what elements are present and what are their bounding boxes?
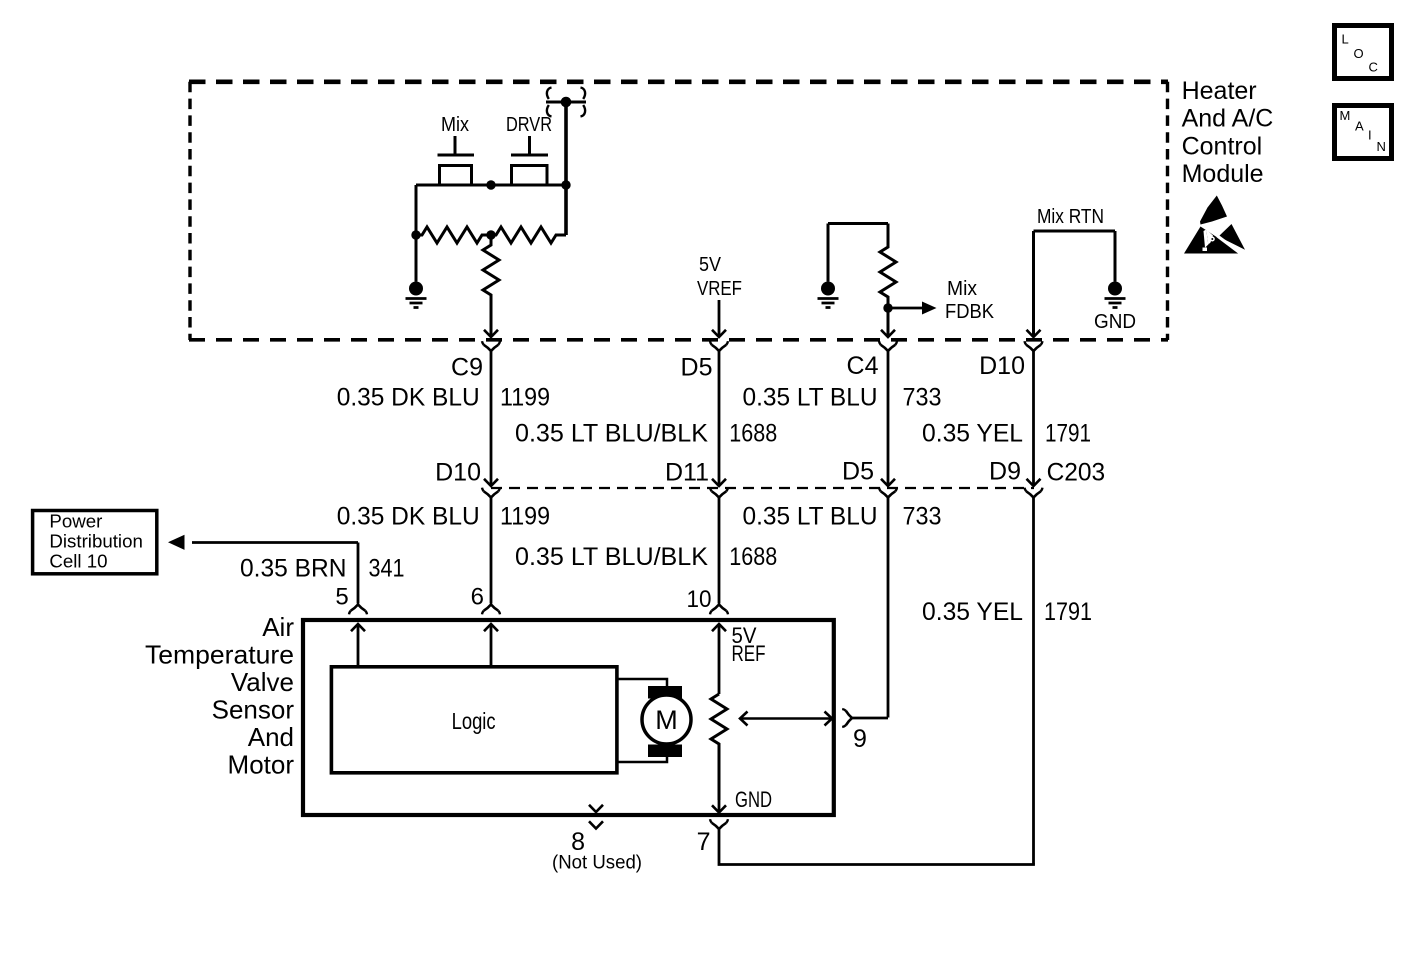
- svg-text:Mix RTN: Mix RTN: [1037, 205, 1104, 228]
- svg-text:733: 733: [903, 384, 942, 412]
- svg-text:FDBK: FDBK: [945, 300, 994, 323]
- svg-text:M: M: [1340, 108, 1351, 123]
- svg-text:Valve: Valve: [231, 667, 294, 697]
- svg-text:Temperature: Temperature: [145, 640, 294, 670]
- svg-text:D9: D9: [989, 458, 1021, 486]
- svg-text:L: L: [1342, 32, 1349, 47]
- svg-text:I: I: [1368, 128, 1372, 143]
- svg-text:0.35 BRN: 0.35 BRN: [240, 555, 347, 583]
- svg-text:7: 7: [697, 828, 711, 856]
- svg-text:Logic: Logic: [452, 708, 496, 734]
- svg-text:C4: C4: [847, 352, 879, 380]
- svg-text:5: 5: [335, 584, 348, 611]
- svg-text:D5: D5: [842, 458, 874, 486]
- svg-text:5V: 5V: [699, 253, 721, 276]
- svg-text:Air: Air: [262, 612, 294, 642]
- svg-text:C: C: [1369, 60, 1378, 75]
- svg-text:Distribution: Distribution: [49, 531, 142, 552]
- svg-text:0.35 YEL: 0.35 YEL: [922, 420, 1023, 448]
- svg-text:0.35 YEL: 0.35 YEL: [922, 598, 1023, 626]
- svg-text:1688: 1688: [729, 543, 777, 571]
- svg-text:N: N: [1377, 139, 1386, 154]
- svg-text:Cell 10: Cell 10: [49, 550, 107, 571]
- svg-text:6: 6: [471, 584, 484, 611]
- svg-text:1791: 1791: [1045, 420, 1091, 448]
- svg-text:1199: 1199: [500, 502, 550, 530]
- svg-text:D10: D10: [435, 459, 481, 487]
- svg-text:D5: D5: [681, 354, 713, 382]
- svg-text:733: 733: [903, 502, 942, 530]
- svg-text:D11: D11: [665, 459, 709, 487]
- svg-text:0.35 LT BLU: 0.35 LT BLU: [743, 502, 878, 530]
- svg-text:(Not Used): (Not Used): [552, 853, 642, 874]
- svg-text:Sensor: Sensor: [212, 695, 295, 725]
- svg-text:0.35 DK BLU: 0.35 DK BLU: [337, 384, 480, 412]
- svg-text:341: 341: [369, 555, 405, 583]
- svg-text:A: A: [1355, 119, 1364, 134]
- svg-text:And: And: [248, 722, 294, 752]
- svg-text:Heater: Heater: [1182, 77, 1257, 105]
- svg-text:C9: C9: [451, 354, 483, 382]
- svg-text:Power: Power: [49, 511, 102, 532]
- svg-text:Mix: Mix: [947, 277, 978, 300]
- svg-text:C203: C203: [1047, 459, 1106, 487]
- svg-text:Module: Module: [1182, 160, 1264, 188]
- svg-text:GND: GND: [1094, 310, 1136, 333]
- svg-text:DRVR: DRVR: [506, 113, 552, 136]
- svg-text:1199: 1199: [500, 384, 550, 412]
- svg-text:1688: 1688: [729, 420, 777, 448]
- svg-text:9: 9: [853, 725, 867, 753]
- svg-text:Motor: Motor: [228, 750, 295, 780]
- svg-text:And A/C: And A/C: [1182, 104, 1274, 132]
- svg-text:0.35 LT BLU: 0.35 LT BLU: [743, 384, 878, 412]
- svg-text:10: 10: [687, 586, 712, 613]
- svg-text:Mix: Mix: [441, 113, 470, 136]
- svg-text:VREF: VREF: [697, 277, 742, 300]
- svg-text:GND: GND: [735, 787, 772, 812]
- svg-text:0.35 LT BLU/BLK: 0.35 LT BLU/BLK: [515, 543, 708, 571]
- svg-text:0.35 LT BLU/BLK: 0.35 LT BLU/BLK: [515, 420, 708, 448]
- svg-text:Control: Control: [1182, 133, 1263, 161]
- svg-text:1791: 1791: [1044, 598, 1092, 626]
- svg-text:REF: REF: [732, 641, 766, 666]
- svg-text:0.35 DK BLU: 0.35 DK BLU: [337, 502, 480, 530]
- svg-text:D10: D10: [979, 352, 1025, 380]
- svg-text:M: M: [655, 705, 678, 735]
- svg-text:O: O: [1354, 46, 1364, 61]
